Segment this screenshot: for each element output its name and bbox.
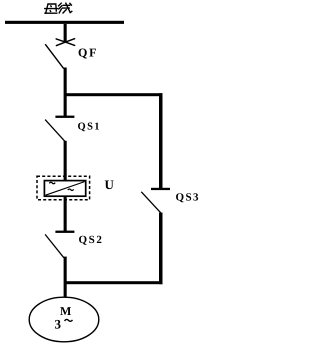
busbar bbox=[5, 21, 124, 24]
svg-text:U: U bbox=[105, 177, 115, 192]
breaker QF blade bbox=[45, 44, 64, 68]
wire busbar to QF contact bbox=[64, 24, 67, 43]
disconnect QS2 blade bbox=[45, 234, 64, 257]
converter U input tilde bbox=[49, 182, 55, 183]
wire bottom branch horizontal bbox=[64, 281, 163, 284]
converter U output tilde bbox=[68, 189, 74, 190]
wire converter U to QS2 bbox=[64, 196, 67, 232]
svg-text:QS3: QS3 bbox=[176, 192, 200, 204]
converter U diagonal bbox=[46, 182, 85, 196]
wire QF to QS1 bbox=[64, 68, 67, 118]
svg-text:QS2: QS2 bbox=[79, 234, 104, 246]
busbar label 母线 bbox=[45, 3, 72, 13]
wire right branch upper vertical bbox=[159, 93, 163, 189]
breaker QF contact X bbox=[56, 39, 74, 46]
wire top branch horizontal bbox=[64, 93, 163, 96]
svg-text:QS1: QS1 bbox=[78, 122, 101, 133]
converter U box bbox=[44, 181, 85, 197]
disconnect QS1 blade bbox=[45, 120, 65, 142]
svg-text:QF: QF bbox=[78, 46, 98, 60]
wire QS2 to bottom junction bbox=[64, 257, 67, 298]
wire QS1 to converter U bbox=[64, 141, 67, 181]
disconnect QS1 contact bar bbox=[55, 116, 74, 118]
motor M circle bbox=[29, 297, 99, 342]
motor label tilde bbox=[65, 319, 73, 321]
svg-text:M: M bbox=[60, 304, 71, 318]
disconnect QS2 contact bar bbox=[55, 231, 74, 233]
converter U enclosure dashed bbox=[37, 176, 90, 200]
wire right branch lower vertical bbox=[159, 213, 163, 285]
svg-text:3: 3 bbox=[55, 317, 62, 332]
disconnect QS3 contact bar bbox=[151, 188, 170, 190]
disconnect QS3 blade bbox=[141, 192, 161, 214]
